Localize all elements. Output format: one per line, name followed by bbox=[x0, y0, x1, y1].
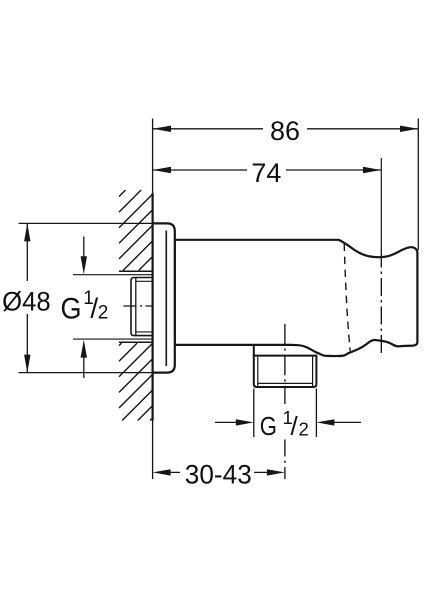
svg-text:Ø48: Ø48 bbox=[2, 287, 51, 317]
svg-text:30-43: 30-43 bbox=[185, 459, 252, 489]
svg-text:74: 74 bbox=[251, 158, 281, 188]
svg-text:G: G bbox=[61, 292, 82, 326]
svg-text:2: 2 bbox=[299, 419, 309, 440]
svg-text:86: 86 bbox=[270, 116, 300, 146]
svg-text:2: 2 bbox=[98, 303, 109, 324]
svg-text:G: G bbox=[260, 412, 277, 441]
svg-text:/: / bbox=[290, 411, 298, 441]
